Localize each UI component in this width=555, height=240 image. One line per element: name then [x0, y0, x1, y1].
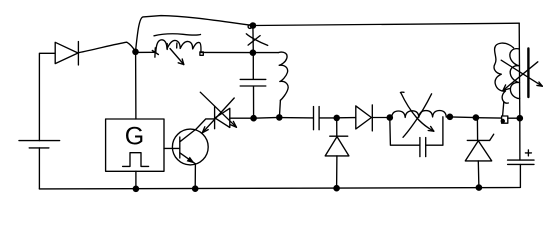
node F: [192, 185, 199, 192]
wire node L to transformer terminal: [476, 117, 501, 119]
wire terminal to node N: [508, 117, 520, 119]
wire right vertical: [518, 23, 521, 118]
capacitor C2: [314, 107, 320, 130]
wire G1 to transistor base: [164, 147, 180, 149]
wire L2 tail to node E: [279, 100, 280, 117]
wire node E to capacitor C2: [279, 117, 313, 119]
wire node L down to zener VD4: [476, 118, 478, 140]
wire node N down to capacitor C4: [519, 118, 521, 160]
node L: [473, 114, 480, 121]
wire VD3 to node J: [372, 117, 390, 119]
zener VD4: [465, 134, 493, 161]
wire node D to node E: [254, 116, 280, 119]
arrows across T1: [501, 60, 542, 90]
capacitor C4 (electrolytic): [508, 150, 534, 165]
diode VD3 (series): [356, 105, 373, 131]
wire C1 to node D: [253, 86, 255, 118]
inductor L2 (vertical): [278, 52, 288, 100]
transformer T1 core bar: [527, 49, 529, 98]
node D: [250, 115, 257, 122]
wire top wavy from node A to top node B: [136, 16, 253, 52]
node G1 ground: [133, 186, 140, 193]
X mark on vertical wire: [246, 34, 267, 46]
inductor L3 (tank): [392, 111, 447, 118]
diode VD2 (shunt): [325, 136, 349, 156]
capacitor C3 (tank): [420, 138, 426, 157]
wire node C to capacitor C1: [252, 53, 254, 79]
wire slanted from D1 to node A: [79, 42, 136, 53]
wire vertical node B to node C: [252, 26, 254, 53]
wire node A to inductor L1: [136, 51, 156, 53]
transformer T1 coil: [494, 43, 520, 116]
wire curl at node B: [248, 25, 252, 29]
wire node H down to diode VD2: [336, 118, 338, 136]
wire top straight from node B to right corner: [253, 23, 519, 25]
capacitor C1: [240, 79, 266, 86]
svg-text:G: G: [125, 123, 144, 151]
wire node K to node L: [450, 116, 476, 119]
wire L3 to node K: [446, 116, 450, 118]
square terminal of L1: [200, 52, 203, 55]
node C: [250, 49, 257, 56]
diode D1: [55, 42, 78, 66]
node I: [333, 185, 340, 192]
node J: [387, 114, 394, 121]
wire tank lower branch right: [426, 117, 443, 145]
battery GB1: [19, 141, 60, 148]
wire G1 bottom lead: [135, 171, 137, 189]
arrow across L1: [170, 49, 184, 65]
generator G1 box: [106, 119, 164, 171]
node K: [447, 114, 454, 121]
wire node H to diode VD3: [337, 117, 356, 119]
wire node A down to generator box: [135, 52, 137, 119]
wire VD1 to node D: [230, 117, 254, 119]
node M: [476, 184, 483, 191]
wire bottom rail: [39, 165, 520, 189]
node A: [132, 49, 139, 56]
wire emitter to node F: [194, 164, 196, 189]
wire VD4 to node M: [477, 161, 480, 188]
node H: [333, 115, 340, 122]
arrows across VD1: [200, 92, 236, 133]
varicap VD1: [215, 106, 230, 128]
wire battery top to diode D1: [39, 53, 55, 140]
arrows across L3: [400, 92, 433, 137]
node N: [517, 115, 524, 122]
node B: [250, 22, 257, 29]
square terminal of T1: [501, 116, 508, 123]
wire L1 to node C: [201, 51, 253, 53]
transistor VT1: [172, 119, 214, 165]
wire C2 to node H: [319, 117, 337, 119]
wire node C to inductor L2: [253, 52, 278, 54]
inductor L1 (variable, with core line): [152, 34, 201, 57]
wire VD2 to node I: [336, 156, 338, 188]
wire tank lower branch left: [390, 118, 420, 146]
node E: [276, 114, 283, 121]
wire battery bottom: [38, 148, 40, 189]
